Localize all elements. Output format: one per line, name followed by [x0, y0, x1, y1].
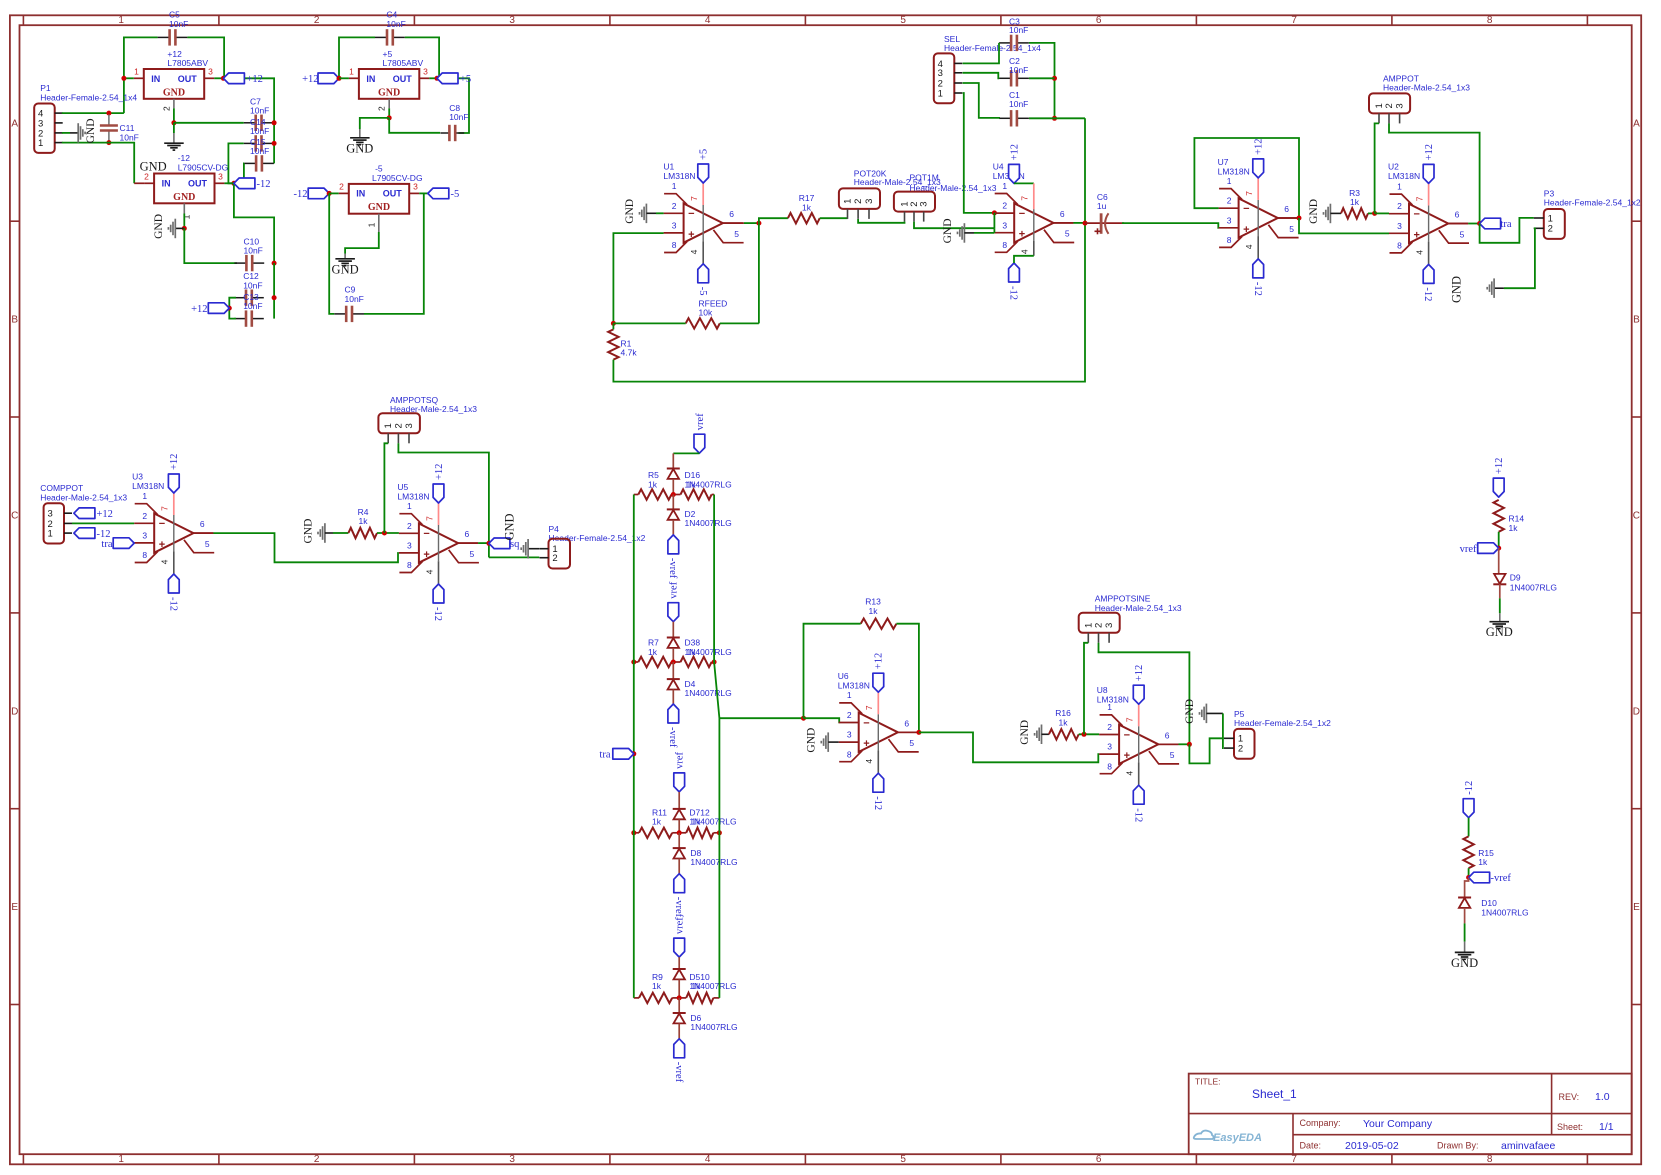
pin 2 of reg4 — [329, 192, 339, 194]
svg-text:GND: GND — [153, 214, 165, 239]
wire reg4 gnd to ground — [345, 232, 379, 254]
svg-text:GND: GND — [503, 513, 517, 540]
svg-text:IN: IN — [162, 178, 171, 188]
wire -12 flag jog to pin4 — [1033, 241, 1035, 256]
svg-text:+12: +12 — [1254, 138, 1265, 154]
junction rung2 left — [631, 660, 636, 665]
svg-text:+12: +12 — [434, 464, 445, 480]
title block — [1189, 1074, 1632, 1155]
svg-text:10nF: 10nF — [449, 112, 468, 122]
svg-text:2: 2 — [1002, 201, 1007, 211]
svg-text:1k: 1k — [802, 202, 812, 212]
svg-text:1u: 1u — [1097, 201, 1107, 211]
junction reg2 gnd — [387, 115, 392, 120]
svg-text:5: 5 — [1460, 229, 1465, 239]
svg-text:4: 4 — [689, 249, 699, 254]
svg-text:E: E — [11, 902, 18, 913]
svg-text:1: 1 — [1397, 181, 1402, 191]
svg-text:1k: 1k — [691, 981, 701, 991]
wire U3 output to U5 pin3 — [193, 532, 213, 534]
wire P1 pin1 to reg3 input — [62, 142, 109, 144]
resistor R16 1k — [1049, 729, 1079, 739]
wire reg2 gnd to C8 — [389, 118, 440, 133]
svg-text:IN: IN — [366, 74, 375, 84]
svg-text:7: 7 — [424, 516, 434, 521]
svg-text:−: − — [863, 717, 869, 729]
svg-text:Header-Female-2.54_1x2: Header-Female-2.54_1x2 — [1234, 718, 1331, 728]
resistor R12 1k (right rung3) — [686, 828, 713, 838]
svg-text:2: 2 — [1397, 201, 1402, 211]
wire reg3 gnd down to C10 — [184, 228, 237, 263]
svg-text:3: 3 — [1002, 220, 1007, 230]
wire +5 down to C8 — [437, 78, 469, 133]
resistor R15 1k — [1463, 836, 1473, 868]
svg-text:-12: -12 — [257, 179, 271, 190]
rail right for C12/C13 — [273, 263, 275, 319]
svg-text:+: + — [1243, 224, 1249, 236]
svg-text:3: 3 — [1395, 103, 1406, 108]
junction U6 out / R13 — [916, 730, 921, 735]
svg-text:Header-Male-2.54_1x3: Header-Male-2.54_1x3 — [40, 493, 127, 503]
sideways ground at reg3 gnd — [175, 227, 184, 229]
junction rung3 right — [717, 830, 722, 835]
wire gnd to U1 pin2 — [656, 212, 664, 214]
svg-text:LM318N: LM318N — [1218, 167, 1250, 177]
wire U1 output — [723, 222, 744, 224]
wire reg4 in to C9 — [329, 193, 334, 314]
wire -12 to lower cap rail — [234, 183, 274, 263]
resistor R3 1k — [1341, 208, 1368, 218]
svg-text:Company:: Company: — [1300, 1118, 1341, 1128]
svg-text:7: 7 — [160, 506, 170, 511]
svg-text:10nF: 10nF — [244, 246, 263, 256]
net flag sq at U5 out — [489, 538, 510, 549]
svg-text:-12: -12 — [1252, 282, 1263, 296]
pin 1 of reg2 — [349, 77, 359, 79]
resistor R4 1k — [348, 528, 377, 538]
ground symbol at P1 pin2 — [62, 132, 70, 134]
svg-text:TITLE:: TITLE: — [1195, 1077, 1221, 1087]
svg-text:1k: 1k — [691, 817, 701, 827]
svg-text:10nF: 10nF — [1009, 99, 1028, 109]
net flag tra at U3 pin3 — [113, 538, 134, 549]
svg-text:1/1: 1/1 — [1599, 1121, 1614, 1133]
net flag tra at U2 out — [1480, 218, 1501, 229]
wire C15 left to -12 — [234, 163, 244, 183]
wire ladder left rail — [633, 495, 635, 998]
sideways ground at U4 pin3 — [963, 223, 965, 243]
svg-text:1k: 1k — [687, 479, 697, 489]
svg-text:Your Company: Your Company — [1363, 1118, 1433, 1130]
net flag +12 at U4 pin7 — [1009, 164, 1020, 183]
svg-text:GND: GND — [332, 262, 359, 276]
svg-text:L7805ABV: L7805ABV — [167, 58, 208, 68]
svg-text:1: 1 — [366, 222, 376, 227]
svg-text:5: 5 — [900, 1154, 906, 1165]
svg-text:3: 3 — [142, 531, 147, 541]
svg-text:1: 1 — [118, 15, 124, 26]
svg-text:2: 2 — [161, 106, 171, 111]
svg-text:4: 4 — [705, 15, 711, 26]
wire U1 out down to RFEED right — [758, 223, 760, 323]
junction U8 out — [1187, 742, 1192, 747]
net flag vref above D5 — [674, 938, 685, 957]
svg-text:1k: 1k — [648, 479, 658, 489]
svg-text:GND: GND — [1450, 276, 1464, 303]
svg-text:+: + — [1019, 229, 1025, 241]
svg-text:10nF: 10nF — [345, 294, 364, 304]
svg-text:1: 1 — [47, 529, 52, 540]
svg-text:-12: -12 — [294, 189, 308, 200]
wire SEL pin1 down to U4 pin2 — [963, 93, 995, 213]
diode D3 1N4007RLG — [672, 622, 674, 638]
wire POT20K pin2 to POT1M pin1 — [858, 219, 904, 223]
pin 3 of L7805ABV — [204, 77, 214, 79]
svg-text:8: 8 — [142, 550, 147, 560]
svg-text:+12: +12 — [1494, 458, 1505, 474]
svg-text:8: 8 — [1487, 15, 1493, 26]
wire RFEED left lead — [613, 322, 685, 324]
regulator L7805ABV #2 (+5) — [359, 69, 419, 99]
net flag -vref below D8 — [674, 874, 685, 893]
wire POT1M pin2 to U4 gnd node — [914, 222, 994, 229]
wire R17 to POT20K pin1 — [820, 217, 848, 219]
wire AMPPOT pin2 to U2 output net — [1389, 123, 1480, 223]
svg-text:GND: GND — [806, 728, 818, 753]
svg-text:8: 8 — [1487, 1154, 1493, 1165]
svg-text:C: C — [1633, 511, 1640, 522]
svg-text:6: 6 — [1284, 204, 1289, 214]
net flag tra at ladder tap — [631, 751, 636, 756]
junction U4 out / C6 — [1083, 221, 1088, 226]
svg-text:4: 4 — [1414, 250, 1424, 255]
wire C3 right down rail — [1029, 43, 1055, 118]
wire gnd to P5 pin2 — [1222, 713, 1225, 748]
svg-text:OUT: OUT — [188, 178, 208, 188]
resistor R1 4.7k — [608, 329, 618, 359]
svg-text:GND: GND — [1019, 720, 1031, 745]
svg-text:2: 2 — [1384, 103, 1395, 108]
wire ladder right rail slant — [714, 662, 719, 998]
wire U2 output — [1448, 223, 1468, 225]
pin 1 of reg4 (gnd) — [378, 214, 380, 232]
svg-text:1N4007RLG: 1N4007RLG — [1510, 582, 1557, 592]
wire AMPPOT pin1 down to R3 node — [1375, 123, 1379, 213]
pin 3 of reg3 — [215, 182, 225, 184]
svg-text:4: 4 — [1244, 244, 1254, 249]
svg-text:U7: U7 — [1218, 157, 1229, 167]
svg-text:1k: 1k — [1350, 197, 1360, 207]
wire C14 left to -12 — [228, 143, 243, 183]
net flag -12 at U7 pin4 — [1253, 259, 1264, 278]
svg-text:1k: 1k — [359, 516, 369, 526]
svg-text:GND: GND — [624, 199, 636, 224]
svg-text:10nF: 10nF — [243, 301, 262, 311]
wire U1 pin3 from feedback node — [613, 233, 663, 323]
net flag -vref at ladder bottom — [674, 1039, 685, 1058]
svg-text:2: 2 — [1107, 722, 1112, 732]
sideways ground at U6 pin3 — [827, 732, 829, 752]
svg-text:3: 3 — [208, 67, 213, 77]
svg-text:aminvafaee: aminvafaee — [1501, 1140, 1555, 1152]
junction rung2 right — [712, 660, 717, 665]
svg-text:+12: +12 — [1424, 144, 1435, 160]
svg-text:8: 8 — [1002, 240, 1007, 250]
svg-text:-12: -12 — [432, 607, 443, 621]
svg-text:3: 3 — [1397, 221, 1402, 231]
net flag vref — [1478, 543, 1499, 554]
junction R4 / AMPPOTSQ pin1 — [382, 531, 387, 536]
net flag vref above D3 — [668, 603, 679, 622]
resistor R14 1k — [1494, 500, 1504, 532]
svg-text:+12: +12 — [247, 74, 263, 85]
net flag -12 at U4 pin4 — [1009, 263, 1020, 282]
wire U1 out up-jog to R17 — [759, 218, 788, 223]
diode D9 1N4007RLG — [1498, 548, 1500, 574]
svg-text:A: A — [1633, 119, 1640, 130]
svg-text:-12: -12 — [167, 597, 178, 611]
net flag +12 at reg1 out — [223, 73, 244, 84]
junction reg2 out — [435, 76, 440, 81]
wire C12/C13 left to +12 flag — [229, 298, 236, 319]
svg-text:-5: -5 — [375, 164, 383, 174]
svg-text:Header-Female-2.54_1x4: Header-Female-2.54_1x4 — [944, 43, 1041, 53]
svg-text:2: 2 — [1548, 224, 1553, 235]
svg-text:LM318N: LM318N — [663, 171, 695, 181]
svg-text:2: 2 — [853, 199, 864, 204]
svg-text:U8: U8 — [1097, 685, 1108, 695]
svg-text:Header-Male-2.54_1x3: Header-Male-2.54_1x3 — [1383, 83, 1470, 93]
svg-text:3: 3 — [1104, 623, 1115, 628]
svg-text:U1: U1 — [663, 161, 674, 171]
svg-text:−: − — [688, 208, 694, 220]
wire ladder right rail upper — [713, 495, 715, 663]
svg-text:+: + — [688, 229, 694, 241]
wire gnd to U4 pin3 — [974, 232, 994, 234]
svg-text:IN: IN — [151, 74, 160, 84]
svg-text:10nF: 10nF — [243, 280, 262, 290]
resistor R7 1k (left rung2) — [638, 657, 671, 667]
svg-text:LM318N: LM318N — [1097, 695, 1129, 705]
net flag -5 at U1 pin4 — [698, 264, 709, 283]
wire RFEED right lead — [720, 322, 759, 324]
sideways ground at U1 pin2 — [645, 204, 647, 224]
sideways ground at R16 — [1041, 725, 1043, 745]
svg-text:1: 1 — [38, 138, 43, 149]
diode D10 1N4007RLG — [1458, 897, 1471, 899]
pin 2 of reg3 — [134, 182, 144, 184]
svg-text:1: 1 — [142, 491, 147, 501]
resistor R13 1k — [861, 619, 897, 629]
svg-text:1k: 1k — [652, 817, 662, 827]
svg-text:1: 1 — [118, 1154, 124, 1165]
svg-text:tra: tra — [101, 539, 112, 550]
svg-text:POT1M: POT1M — [910, 172, 939, 182]
svg-text:+12: +12 — [1009, 144, 1020, 160]
resistor R5 1k (left rung1) — [638, 489, 671, 499]
sideways ground at P5 pin2 net — [1205, 704, 1207, 724]
svg-text:GND: GND — [1451, 956, 1478, 970]
svg-text:3: 3 — [864, 199, 875, 204]
junction -vref — [1466, 875, 1471, 880]
capacitor C15 — [244, 162, 256, 164]
wire U7 feedback loop — [1194, 138, 1299, 218]
rail +12 right vertical — [223, 78, 274, 163]
junction rung3 left — [631, 830, 636, 835]
svg-text:+: + — [1414, 229, 1420, 241]
svg-text:3: 3 — [423, 67, 428, 77]
svg-text:2: 2 — [407, 521, 412, 531]
net flag +12 at U8 pin7 — [1133, 685, 1144, 704]
net flag +12 at U2 pin7 — [1423, 164, 1434, 183]
net flag -12 at U2 pin4 — [1423, 264, 1434, 283]
svg-text:7: 7 — [1291, 15, 1297, 26]
svg-text:2: 2 — [314, 1154, 320, 1165]
svg-text:6: 6 — [904, 718, 909, 728]
wire to P4 pin2 — [489, 556, 539, 558]
junction rung4 center — [677, 995, 682, 1000]
svg-text:2: 2 — [144, 172, 149, 182]
capacitor C8 — [440, 132, 449, 134]
wire C5 left to regulator U? pin1 rail — [124, 37, 158, 113]
wire D10 to gnd — [1464, 923, 1466, 941]
svg-text:+12: +12 — [97, 509, 113, 520]
svg-text:1N4007RLG: 1N4007RLG — [690, 857, 737, 867]
svg-text:4: 4 — [864, 759, 874, 764]
wire ladder tap to U6 input — [719, 717, 803, 719]
wire U7 out to U2 pin3 — [1299, 218, 1389, 233]
svg-text:+12: +12 — [1134, 665, 1145, 681]
svg-text:IN: IN — [356, 189, 365, 199]
svg-text:5: 5 — [1289, 224, 1294, 234]
svg-text:2: 2 — [393, 423, 404, 428]
svg-text:+: + — [863, 738, 869, 750]
wire pin2 to gnd junction — [173, 108, 175, 123]
junction U1 output — [756, 221, 761, 226]
svg-text:8: 8 — [847, 749, 852, 759]
wire C-rail to U4 output node — [1055, 117, 1086, 119]
svg-text:OUT: OUT — [393, 74, 413, 84]
wire U4 gnd net down — [993, 213, 995, 228]
diode D1 1N4007RLG — [672, 453, 674, 468]
svg-text:6: 6 — [1165, 730, 1170, 740]
svg-text:-5: -5 — [697, 287, 708, 296]
svg-text:vref: vref — [669, 581, 680, 598]
svg-text:vref: vref — [675, 917, 686, 934]
pin 2 of reg2 — [388, 99, 390, 109]
net flag -12 at reg3 out — [234, 178, 255, 189]
wire vref to ladder spine — [673, 452, 699, 454]
svg-text:2: 2 — [847, 710, 852, 720]
svg-text:1k: 1k — [869, 606, 879, 616]
junction rung1 center — [671, 492, 676, 497]
svg-text:2: 2 — [672, 201, 677, 211]
wire C4 left — [339, 37, 375, 78]
svg-text:3: 3 — [509, 15, 515, 26]
svg-text:OUT: OUT — [178, 74, 198, 84]
wire U6 pin2 jog — [804, 718, 840, 722]
svg-text:6: 6 — [729, 209, 734, 219]
net flag +12 at U5 pin7 — [433, 484, 444, 503]
svg-text:+: + — [159, 539, 165, 551]
wire R3 to U4 pin2 junction — [1368, 212, 1375, 214]
junction reg3 gnd — [182, 226, 187, 231]
svg-text:-12: -12 — [1464, 781, 1475, 795]
svg-text:tra: tra — [1501, 219, 1512, 230]
svg-text:LM318N: LM318N — [132, 481, 164, 491]
wire R1 bottom to C-select rail — [613, 118, 1085, 381]
svg-text:+: + — [1124, 750, 1130, 762]
net flag vref at ladder top — [694, 434, 705, 453]
net flag +12 at R14 top — [1493, 478, 1504, 497]
junction P1 pin1 / C11 bottom — [106, 140, 111, 145]
pin 1 of reg3 (gnd) — [183, 203, 185, 213]
net flag +5 at U1 pin7 — [698, 164, 709, 183]
svg-text:Sheet:: Sheet: — [1557, 1122, 1583, 1132]
svg-text:R13: R13 — [865, 597, 881, 607]
svg-text:GND: GND — [368, 202, 390, 213]
svg-text:10nF: 10nF — [250, 146, 269, 156]
wire COMPPOT pin2 to U3 pin2 — [72, 522, 134, 524]
svg-text:GND: GND — [163, 87, 185, 98]
svg-text:+5: +5 — [699, 149, 710, 160]
svg-text:+12: +12 — [874, 653, 885, 669]
junction C7 right — [272, 120, 277, 125]
wire reg2 gnd to ground symbol — [360, 118, 389, 129]
wire -vref to D10 — [1465, 878, 1469, 898]
regulator L7805ABV (+12 to +5? top-left) — [144, 69, 204, 99]
net flag -12 at U8 pin4 — [1133, 785, 1144, 804]
svg-text:-vref: -vref — [673, 897, 684, 918]
svg-text:GND: GND — [378, 87, 400, 98]
svg-text:1: 1 — [407, 501, 412, 511]
capacitor C11 — [108, 115, 110, 126]
svg-text:6: 6 — [465, 529, 470, 539]
resistor R17 1k — [788, 213, 820, 223]
capacitor C3 — [999, 42, 1011, 44]
svg-text:B: B — [1633, 315, 1640, 326]
capacitor C2 — [999, 77, 1011, 79]
EasyEDA logo — [1194, 1131, 1214, 1139]
sideways ground at R4 — [324, 523, 326, 543]
wire to pin1 — [124, 77, 134, 79]
svg-text:4: 4 — [705, 1154, 711, 1165]
diode D8 1N4007RLG — [678, 833, 680, 848]
wire C2 right — [1029, 77, 1055, 79]
wire AMPPOTSINE pin1 down to R16 node — [1084, 643, 1088, 735]
svg-text:3: 3 — [218, 172, 223, 182]
wire reg1-gnd to C7 — [174, 122, 244, 124]
svg-text:10k: 10k — [699, 308, 713, 318]
junction U5 out — [486, 541, 491, 546]
svg-text:6: 6 — [200, 519, 205, 529]
svg-text:7: 7 — [1020, 196, 1030, 201]
wire U5 output — [458, 542, 478, 544]
svg-text:4: 4 — [424, 569, 434, 574]
svg-text:-12: -12 — [872, 796, 883, 810]
pin 3 of reg4 — [409, 192, 419, 194]
wire C7 right to rail — [273, 122, 276, 124]
svg-text:1k: 1k — [1509, 523, 1519, 533]
junction reg3 out -12 — [231, 181, 236, 186]
svg-text:3: 3 — [1107, 742, 1112, 752]
svg-text:Date:: Date: — [1300, 1141, 1322, 1151]
svg-text:10nF: 10nF — [250, 106, 269, 116]
svg-text:+: + — [423, 549, 429, 561]
regulator L7905CV-DG #2 (-5) — [349, 184, 409, 214]
net flag +12 at U3 pin7 — [168, 474, 179, 493]
wire U2 out loop to P3 pin1 — [1480, 218, 1534, 243]
